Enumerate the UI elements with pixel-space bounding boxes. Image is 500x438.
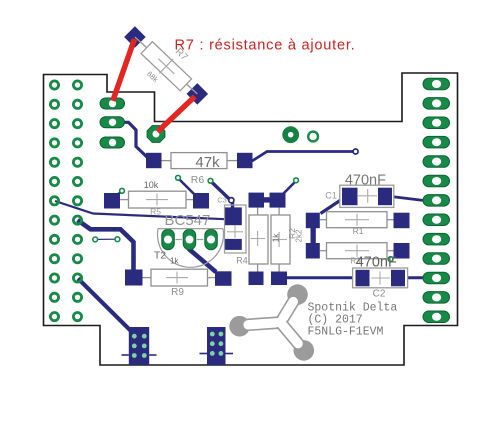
connector J1 tick right [149,354,156,356]
pad C3 bottom [224,239,242,250]
wire thin net from left ring to C3 [55,201,226,219]
pad R5 left [104,193,120,209]
via D [294,178,299,183]
wire C2 right pad to header pad [405,276,430,279]
pad R4 bottom [249,272,264,286]
pad R2 bottom [271,272,287,286]
pad octagon [147,126,165,143]
jumper bridge R1/R3 [311,226,316,245]
svg-text:C1: C1 [325,191,337,201]
svg-text:68k: 68k [145,69,160,84]
pad R9 right [215,271,232,286]
connector J1 pin dots [132,334,147,358]
pad ring [308,132,318,142]
board outline [44,73,458,365]
jumper JP1 bridge [262,197,272,202]
via G [388,257,393,262]
capacitor C2 body [353,268,408,288]
capacitor C3 cross [227,231,243,233]
wire ring to R9 left pad [78,220,134,272]
transistor T2 pad 3 [205,229,218,250]
via F [115,237,120,242]
svg-text:10k: 10k [144,180,159,190]
wire C1 left pad to R1 left pad [321,200,342,214]
svg-text:Spotnik Delta: Spotnik Delta [308,301,398,314]
resistor R9 body [143,269,216,286]
svg-text:1k: 1k [170,257,179,266]
via E [93,237,98,242]
pad C1 right [378,188,392,206]
pad K1 oval [100,98,125,109]
via navy H [353,149,358,154]
jumper JP1 pad B [270,193,286,208]
pad C2 right [391,270,405,287]
pad K2 oval [100,117,125,128]
resistor R7 lead [135,37,197,94]
red annotation line 2 [158,97,195,132]
resistor R2 body [271,208,290,272]
connector J2 body [207,327,226,365]
via A [120,188,125,193]
pad donut [282,126,299,143]
svg-text:C3: C3 [217,196,227,205]
resistor R6 body [162,153,238,169]
wire ring to connector J1 [78,279,131,332]
svg-text:R6: R6 [191,174,205,186]
via navy I [229,198,234,203]
resistor R7 body [140,40,193,92]
pad C2 left [356,270,370,287]
via C [208,178,213,183]
svg-text:T2: T2 [154,250,166,262]
connector J2 tick left [200,353,208,355]
spinner graphic arms [242,294,306,351]
svg-text:47k: 47k [195,154,220,171]
svg-text:R5: R5 [150,207,161,217]
pad R3 left [306,243,320,259]
pad R1 left [306,213,320,229]
svg-text:470nF: 470nF [345,172,386,188]
svg-text:(C) 2017: (C) 2017 [308,313,363,326]
pad C1 left [342,188,358,206]
header pin field left (2x13 rings) [50,81,81,321]
transistor T2 dashes [176,239,182,241]
transistor T2 pad 1 [162,229,175,250]
svg-text:F5NLG-F1EVM: F5NLG-F1EVM [308,326,384,339]
wire via to C3 top pad [211,181,233,210]
wire jumper pad to via [284,181,297,194]
header pin field right (1x13 oval pads) [423,78,450,322]
solder pad P2 (rotated) [187,83,208,104]
pad C3 top [224,207,242,225]
svg-text:470nF: 470nF [356,254,397,270]
transistor T2 outline [157,229,223,268]
red annotation line 1 [113,39,135,101]
wire R6 right pad to via [252,152,355,162]
svg-text:1k: 1k [272,233,281,242]
connector J1 body [129,327,149,365]
wire T2 emitter to R9 right pad [190,242,217,272]
jumper JP1 pad A [249,193,265,208]
pad R6 right [237,153,253,168]
pad R9 left [125,270,143,286]
wire via to R5 right pad [178,178,196,196]
via B [176,175,181,180]
wire C1 right pad to header pad [391,197,434,201]
resistor R4 body [249,208,268,272]
pad K3 oval [100,137,125,148]
svg-text:C2: C2 [373,289,386,300]
svg-text:BC547: BC547 [165,212,211,229]
pad R1 right [394,213,410,229]
svg-text:R1: R1 [353,226,364,236]
capacitor C3 outline [225,205,247,253]
wire oval2 to R6 left pad [122,122,148,158]
pad R6 left [146,153,162,168]
connector J2 pin dots [210,332,223,356]
resistor R1 body [320,212,394,228]
svg-text:2k2: 2k2 [295,229,304,242]
wire between test vias [95,238,117,240]
transistor T2 pad 2 [183,229,196,250]
svg-text:R7 : résistance à ajouter.: R7 : résistance à ajouter. [175,37,356,53]
capacitor C1 body [340,185,394,207]
svg-text:R9: R9 [171,287,184,298]
solder pad P1 (rotated) [124,26,145,47]
spinner graphic circles [287,284,308,305]
wire jumper to C2 left pad [287,276,355,279]
connector J1 tick left [122,354,129,356]
pad R3 right [394,243,410,259]
pad R5 right [193,193,209,209]
connector J2 tick right [226,353,234,355]
resistor R5 body [120,191,193,208]
wire R5 left pad to via [117,191,122,195]
svg-text:R4: R4 [236,256,248,266]
resistor R3 body [320,243,394,259]
